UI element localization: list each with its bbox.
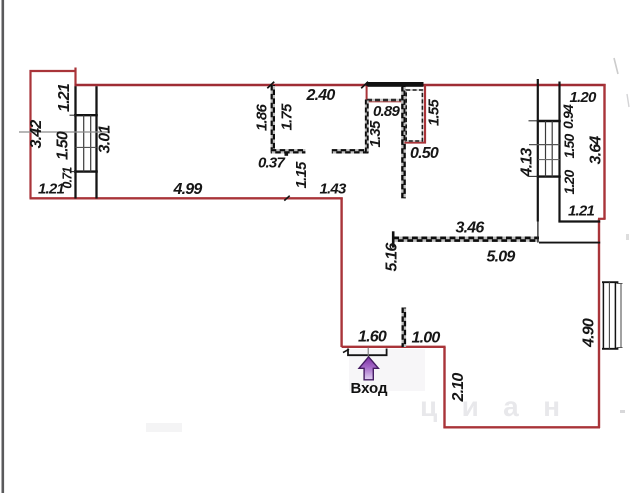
svg-text:1.86: 1.86: [254, 104, 271, 131]
watermark smudge near entrance: [349, 349, 425, 391]
balcony outline (red): [31, 71, 76, 199]
right window pane lines: [529, 144, 560, 146]
svg-text:3.46: 3.46: [456, 220, 485, 237]
closet left wall red splice: [366, 86, 368, 101]
svg-text:1.75: 1.75: [279, 103, 296, 130]
right wall upper (red): [603, 84, 605, 219]
svg-text:1.60: 1.60: [358, 329, 387, 346]
svg-text:4.90: 4.90: [581, 318, 598, 348]
svg-text:1.35: 1.35: [367, 120, 384, 147]
bottom wall of upper-left room (red): [30, 197, 343, 199]
svg-text:1.55: 1.55: [426, 99, 443, 126]
entrance threshold: [348, 349, 387, 356]
top wall (red): [75, 84, 606, 87]
svg-text:3.64: 3.64: [588, 136, 605, 165]
left wall of lower room (red): [443, 347, 445, 428]
svg-text:Вход: Вход: [350, 380, 388, 397]
lower room window dimension extension: [620, 284, 622, 348]
left window dimension line across: [19, 131, 110, 133]
left window mid pane line: [76, 146, 97, 148]
top thick black wall segment: [366, 82, 423, 87]
svg-text:3.01: 3.01: [97, 125, 114, 154]
svg-text:4.99: 4.99: [173, 181, 203, 198]
svg-text:5.16: 5.16: [384, 243, 401, 272]
3.46 wall end cap: [392, 231, 395, 247]
dim tick top wall at 2.40 left: [267, 82, 274, 88]
threshold tick: [343, 349, 349, 352]
dim tick top wall at 2.40 right: [361, 82, 368, 88]
left page border line: [1, 0, 4, 493]
entrance partition (dashed): [401, 308, 406, 348]
right window step wall bottom: [558, 220, 600, 222]
svg-text:1.15: 1.15: [293, 161, 310, 188]
entrance arrow: [359, 357, 378, 380]
hallway left wall (red): [340, 198, 342, 348]
svg-text:4.13: 4.13: [519, 148, 536, 178]
svg-text:1.21: 1.21: [568, 203, 594, 220]
shaft dashed box: [406, 90, 422, 141]
watermark smudge bottom left: [146, 423, 182, 432]
bottom wall of lower room (red): [444, 426, 601, 428]
wall solid segment to right wall: [539, 242, 600, 244]
svg-text:1.50: 1.50: [55, 131, 72, 160]
svg-text:0.89: 0.89: [373, 103, 400, 120]
lower room right window frame bottom: [602, 348, 618, 350]
svg-text:0.94: 0.94: [560, 104, 576, 129]
interior wall 3.46 (dashed): [393, 236, 539, 241]
shaft red bottom edge: [405, 142, 427, 144]
svg-text:0.37: 0.37: [258, 154, 285, 171]
svg-text:1.50: 1.50: [561, 133, 577, 158]
left window top edge: [74, 114, 98, 116]
faint marks top right: [614, 58, 618, 74]
closet top band hatched bottom: [367, 99, 403, 102]
left window bottom edge: [74, 170, 98, 172]
svg-text:1.21: 1.21: [56, 83, 73, 112]
svg-text:0.71: 0.71: [61, 167, 75, 189]
right window wall: outer verticals: [537, 79, 539, 222]
svg-text:0.50: 0.50: [410, 145, 439, 162]
balcony right edge / extension: [74, 68, 76, 87]
right window top edge: [537, 120, 561, 122]
dim tick bottom wall 4.99/1.43: [284, 196, 289, 201]
right wall jog (red): [598, 218, 606, 220]
svg-text:3.42: 3.42: [28, 120, 45, 149]
left window dim ticks: [70, 114, 76, 116]
shaft red right edge: [424, 85, 426, 143]
right window inner glazing lines: [545, 121, 547, 177]
entrance wall (red): [342, 346, 446, 348]
svg-text:2.40: 2.40: [306, 87, 336, 104]
right window wall left line lower thin part: [537, 222, 539, 243]
lower room right window glazing verticals: [602, 282, 604, 349]
left window wall: outer verticals: [74, 86, 76, 198]
hall partition upper (dashed): [401, 86, 406, 198]
closet bottom wall left segment (dashed): [271, 149, 306, 153]
tick 0.37 on closet wall: [285, 153, 289, 156]
closet bottom wall right segment (dashed): [332, 149, 369, 153]
right window bottom edge: [537, 175, 561, 177]
svg-text:1.00: 1.00: [412, 330, 441, 347]
svg-text:1.20: 1.20: [570, 89, 597, 106]
right wall lower (red): [598, 219, 600, 428]
dim ticks right window: [529, 120, 538, 122]
svg-text:1.20: 1.20: [561, 169, 577, 194]
svg-text:1.43: 1.43: [320, 181, 347, 198]
closet top band red underline: [367, 101, 403, 103]
closet wall vertical (dashed): [271, 85, 275, 153]
threshold dim extension: [367, 348, 369, 357]
closet left wall (dashed): [365, 100, 369, 153]
left window inner glazing lines: [83, 115, 85, 171]
lower room right window (4.90 wall) frame top: [602, 281, 618, 283]
svg-text:2.10: 2.10: [450, 373, 467, 403]
svg-text:5.09: 5.09: [487, 249, 516, 266]
